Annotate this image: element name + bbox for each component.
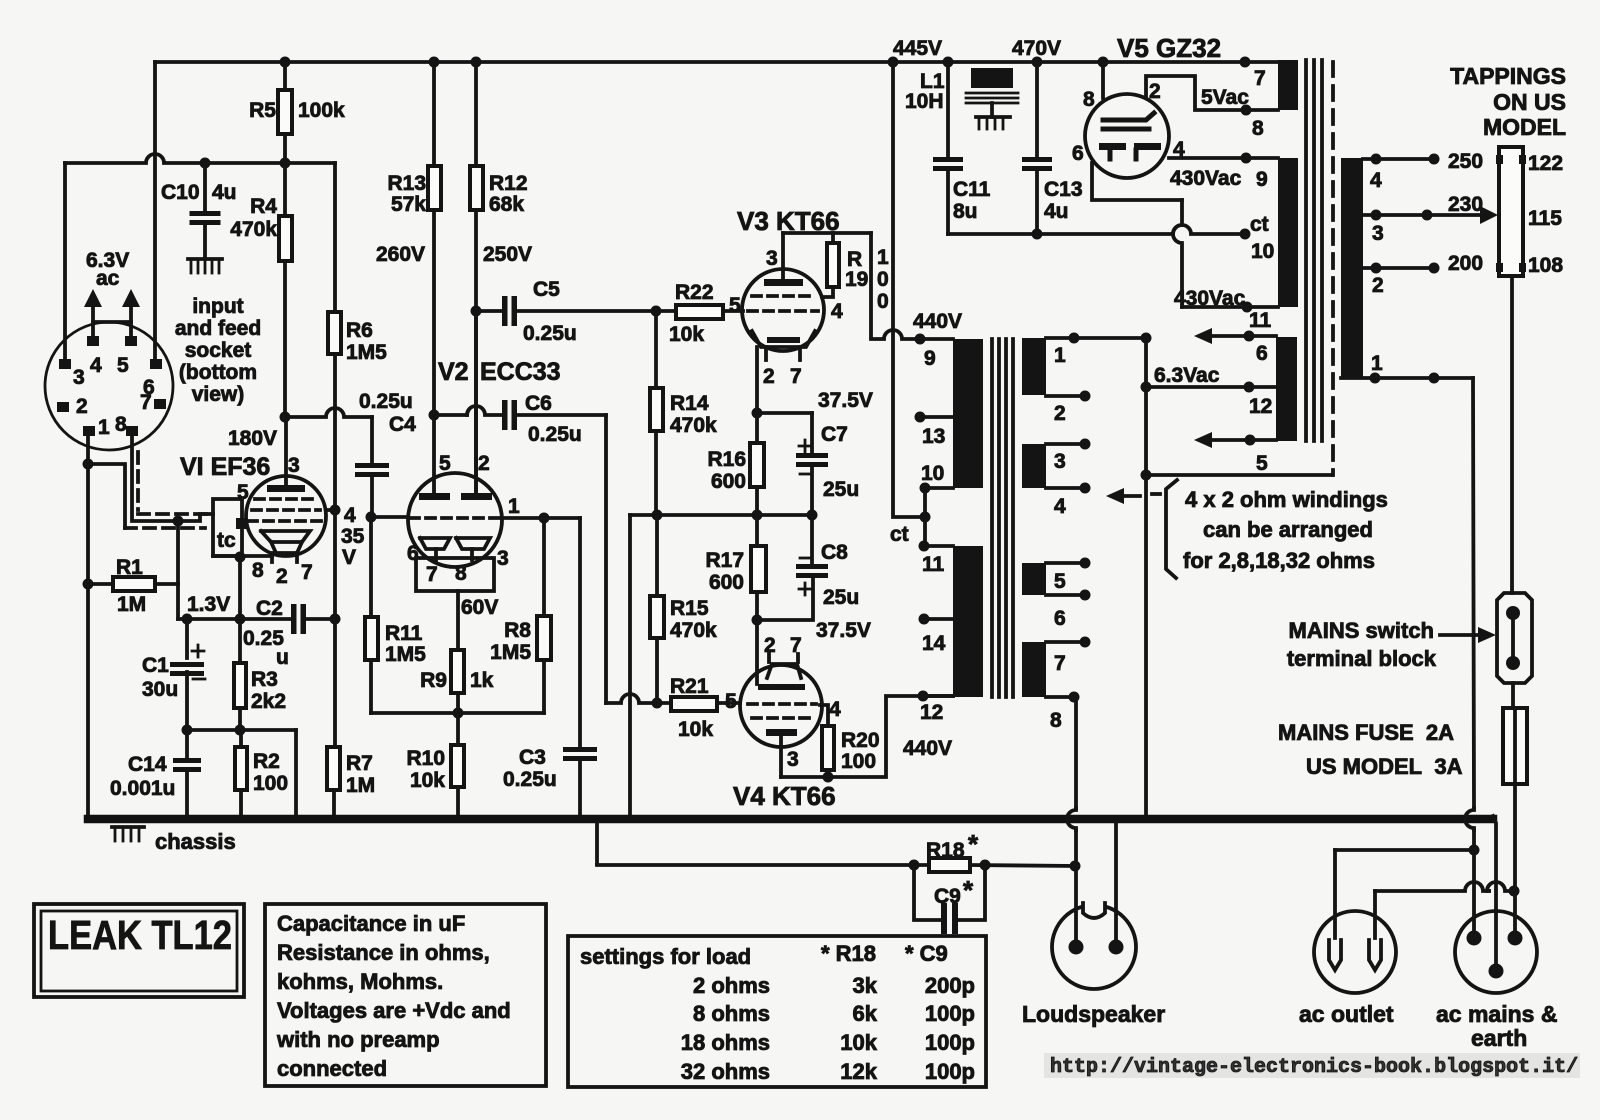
- svg-text:10H: 10H: [905, 90, 944, 113]
- wire: screened lead dashes: [125, 452, 206, 528]
- svg-text:R8: R8: [504, 619, 531, 642]
- wire: loudspeaker right pin to bus: [1114, 822, 1118, 941]
- svg-text:VI EF36: VI EF36: [180, 453, 270, 481]
- svg-text:chassis: chassis: [155, 829, 236, 854]
- label 445V: [893, 37, 942, 60]
- svg-text:3: 3: [1054, 450, 1066, 473]
- svg-text:LEAK TL12: LEAK TL12: [48, 912, 232, 958]
- label R21 10k: [670, 675, 713, 741]
- svg-text:200p: 200p: [925, 973, 975, 998]
- wire: 470V to ct of HV winding: [948, 225, 1245, 234]
- label 5Vac: [1201, 86, 1249, 109]
- node: y730 dots: [182, 725, 246, 736]
- wire: V4 screen lead: [820, 705, 828, 726]
- svg-text:4: 4: [1054, 495, 1066, 518]
- svg-text:C5: C5: [533, 278, 560, 301]
- resistor R11: [365, 517, 378, 713]
- label 60V: [461, 596, 498, 619]
- svg-text:V: V: [342, 546, 356, 569]
- label sec 8: [1050, 709, 1062, 732]
- svg-text:115: 115: [1528, 207, 1562, 230]
- node: NFB to speaker dot: [1070, 861, 1081, 872]
- svg-text:0.25u: 0.25u: [523, 322, 577, 345]
- resistor R1: [88, 577, 178, 591]
- svg-text:7: 7: [140, 391, 152, 414]
- settings table: [821, 941, 975, 1084]
- label R16 600: [707, 448, 746, 493]
- label can be arranged: [1203, 517, 1373, 542]
- svg-text:MODEL: MODEL: [1483, 114, 1566, 140]
- wire: 6.3Vac tap12: [1146, 382, 1276, 393]
- label R12 68k: [489, 172, 528, 216]
- svg-text:9: 9: [1256, 168, 1268, 191]
- capacitor C9 loop: [914, 865, 985, 934]
- wire: ct stub: [923, 488, 927, 546]
- svg-text:1: 1: [1371, 352, 1383, 375]
- label R9 1k: [420, 669, 494, 692]
- svg-text:MAINS FUSE 2A: MAINS FUSE 2A: [1278, 720, 1454, 745]
- svg-text:connected: connected: [277, 1056, 387, 1081]
- wire: live link second hop: [1487, 882, 1514, 891]
- svg-text:430Vac: 430Vac: [1170, 167, 1242, 190]
- svg-text:for 2,8,18,32 ohms: for 2,8,18,32 ohms: [1183, 548, 1375, 573]
- label C14 0.001u: [110, 753, 175, 800]
- tc box: [213, 499, 247, 556]
- svg-text:* C9: * C9: [905, 941, 948, 966]
- wire: B+ 445V top rail: [155, 60, 1283, 64]
- notes box: [265, 904, 546, 1086]
- label 6.3Vac: [1154, 364, 1220, 387]
- svg-text:470k: 470k: [670, 619, 717, 642]
- wire: heater return x=1146: [1144, 338, 1148, 818]
- node: PT tap9 dot: [1241, 153, 1252, 164]
- svg-text:3: 3: [497, 547, 509, 570]
- wire: R5 to R4: [283, 134, 287, 216]
- label 37.5V upper: [818, 389, 873, 412]
- tube V4: cathode stubs: [769, 654, 798, 662]
- label V1 pin3: [288, 454, 300, 477]
- resistor R3: [234, 619, 246, 730]
- svg-text:4 x 2 ohm windings: 4 x 2 ohm windings: [1185, 487, 1388, 512]
- wire: plate line down to tap 9 with hop: [871, 233, 920, 339]
- label C6 0.25u: [525, 392, 582, 446]
- resistor R21 (horizontal): [657, 697, 740, 711]
- svg-text:100: 100: [253, 772, 288, 795]
- wire: mains primary drop: [1465, 378, 1474, 938]
- label R19 100 vertical: [877, 246, 889, 313]
- svg-text:108: 108: [1528, 254, 1563, 277]
- label 0.25u C4: [359, 390, 416, 436]
- wire: tc down to 1.3V node: [238, 557, 242, 619]
- node: R1 left dot: [83, 579, 94, 590]
- svg-text:C10: C10: [161, 181, 200, 204]
- resistor R15: [650, 515, 664, 703]
- svg-text:earth: earth: [1471, 1025, 1527, 1051]
- tube V5: filament: [1099, 143, 1161, 159]
- capacitor C1 electrolytic: [170, 619, 205, 730]
- wire: grid return drop: [176, 521, 180, 619]
- svg-text:10: 10: [1251, 240, 1274, 263]
- svg-text:13: 13: [922, 425, 945, 448]
- wire: NFB branch from bus: [595, 822, 599, 864]
- resistor R12: [470, 62, 483, 311]
- label ct: [890, 523, 909, 546]
- svg-text:1: 1: [508, 495, 520, 518]
- label V3 pins 2 7: [763, 365, 802, 388]
- wire: left heater drop to socket pin 3: [63, 163, 67, 360]
- svg-text:122: 122: [1528, 152, 1563, 175]
- ac outlet: prongs: [1329, 940, 1381, 970]
- svg-text:100p: 100p: [925, 1030, 975, 1055]
- label V1 pin5: [237, 481, 249, 504]
- svg-text:470V: 470V: [1012, 37, 1061, 60]
- svg-text:260V: 260V: [376, 243, 425, 266]
- label C8 25u: [821, 541, 859, 609]
- svg-text:5Vac: 5Vac: [1201, 86, 1249, 109]
- label MAINS FUSE 2A: [1278, 720, 1454, 745]
- capacitor C7 electrolytic: [796, 413, 828, 515]
- label R17 600: [705, 549, 744, 594]
- tube V1 EF36: envelope: [246, 476, 326, 556]
- svg-text:*: *: [963, 875, 974, 905]
- label ac outlet: [1299, 1001, 1394, 1027]
- label V3 grid pin 5: [729, 294, 741, 317]
- wire: tap12: [918, 691, 954, 702]
- svg-text:ac outlet: ac outlet: [1299, 1001, 1394, 1027]
- label PT tap1: [1371, 352, 1383, 375]
- svg-text:terminal block: terminal block: [1287, 646, 1437, 671]
- power transformer: core: [1306, 60, 1322, 441]
- svg-text:C7: C7: [821, 423, 848, 446]
- loudspeaker: pins: [1069, 940, 1124, 955]
- svg-text:(bottom: (bottom: [179, 361, 257, 384]
- svg-text:3k: 3k: [853, 973, 878, 998]
- settings box: [568, 936, 986, 1087]
- fuse: [1503, 708, 1527, 784]
- svg-text:R7: R7: [346, 752, 373, 775]
- capacitor C13: [1022, 62, 1052, 234]
- tube V2: cathode stubs: [436, 549, 472, 560]
- label R14 470k: [670, 392, 717, 437]
- label V4 pin4: [829, 698, 841, 721]
- capacitor C3: [563, 518, 597, 818]
- svg-text:440V: 440V: [913, 310, 962, 333]
- label R20 100: [841, 729, 880, 773]
- svg-text:R5: R5: [249, 99, 276, 122]
- svg-text:C13: C13: [1044, 178, 1083, 201]
- power transformer: 6.3V winding bar: [1276, 337, 1297, 441]
- svg-text:10: 10: [921, 462, 944, 485]
- wire: heater bus y=163 hopping over x=155: [65, 154, 205, 163]
- wire: cathode bottom node y=730: [187, 728, 296, 732]
- wire: arrow crossbar: [93, 320, 131, 324]
- label V4 KT66: [733, 781, 836, 811]
- label V3 pin4: [831, 300, 843, 323]
- svg-text:R15: R15: [670, 597, 709, 620]
- svg-text:input: input: [192, 295, 243, 318]
- label 250: [1448, 150, 1483, 173]
- capacitor C11: [933, 62, 963, 234]
- tube V4: grid dashes: [748, 704, 816, 718]
- svg-text:200: 200: [1448, 252, 1483, 275]
- label C1 30u: [142, 654, 178, 701]
- svg-text:V2: V2: [438, 358, 469, 386]
- svg-text:u: u: [276, 646, 289, 669]
- label sec 1: [1054, 344, 1066, 367]
- output transformer: secondary bar 7-8: [1022, 642, 1046, 697]
- wire: drop x=296 to chassis: [294, 730, 298, 818]
- svg-text:9: 9: [924, 347, 936, 370]
- wire: sec tap3: [1046, 439, 1091, 450]
- wire: 1.3V node: [178, 617, 291, 621]
- label chassis: [155, 829, 236, 854]
- wire: heater bus y=163 right part: [205, 161, 335, 165]
- label V2 pins 7 8: [426, 562, 467, 586]
- svg-text:11: 11: [922, 553, 945, 576]
- label sec 2: [1054, 402, 1066, 425]
- wire: tap14: [919, 614, 954, 625]
- svg-text:C11: C11: [953, 178, 991, 201]
- svg-text:12k: 12k: [840, 1059, 877, 1084]
- resistor R7: [327, 747, 340, 818]
- node: ct dots: [919, 483, 931, 552]
- svg-text:V4 KT66: V4 KT66: [733, 781, 836, 811]
- svg-text:35: 35: [341, 525, 365, 548]
- chassis bus: [88, 815, 1493, 824]
- label C13 4u: [1044, 178, 1083, 223]
- label V3 pin3: [766, 247, 778, 270]
- wire: bias node y=713: [371, 711, 544, 715]
- label 200: [1448, 252, 1483, 275]
- tappings box: [1496, 147, 1526, 276]
- svg-text:8: 8: [455, 562, 467, 585]
- power transformer: 5V winding bar: [1278, 60, 1298, 110]
- svg-text:R6: R6: [346, 319, 373, 342]
- svg-text:3: 3: [288, 454, 300, 477]
- arrow: to switch: [1440, 627, 1496, 643]
- resistor R19: [822, 233, 839, 297]
- wire: 250 tap: [1363, 154, 1440, 165]
- svg-text:1: 1: [1054, 344, 1066, 367]
- svg-text:2: 2: [763, 365, 775, 388]
- svg-text:5: 5: [1256, 452, 1268, 475]
- node: 1.3V dots: [182, 614, 246, 625]
- label 430Vac lower: [1174, 287, 1246, 310]
- svg-text:3: 3: [787, 748, 799, 771]
- wire: socket pin8 to tc box: [132, 436, 213, 521]
- svg-text:12: 12: [920, 701, 943, 724]
- ground: chassis symbol: [112, 827, 144, 841]
- label 108: [1528, 254, 1563, 277]
- input socket pins: [57, 336, 166, 436]
- svg-text:440V: 440V: [903, 737, 952, 760]
- label R5: [249, 99, 345, 122]
- svg-text:US MODEL 3A: US MODEL 3A: [1306, 754, 1463, 779]
- label V5 pin6: [1072, 142, 1084, 165]
- svg-text:socket: socket: [185, 339, 252, 362]
- brace: [1152, 480, 1177, 578]
- svg-text:8 ohms: 8 ohms: [693, 1001, 770, 1026]
- label PT tap7: [1254, 67, 1266, 90]
- svg-text:5: 5: [729, 294, 741, 317]
- node: fuse line dot: [1509, 886, 1520, 897]
- label 37.5V lower: [816, 619, 871, 642]
- wire: V2 right grid to R8/C3: [504, 513, 580, 524]
- label tap 12: [920, 701, 943, 724]
- label V3 KT66: [737, 206, 840, 236]
- svg-text:C14: C14: [128, 753, 167, 776]
- label sec 7: [1054, 652, 1066, 675]
- svg-text:Loudspeaker: Loudspeaker: [1022, 1001, 1165, 1027]
- svg-text:32 ohms: 32 ohms: [681, 1059, 770, 1084]
- wire: ground drop x=630: [628, 515, 632, 818]
- svg-text:4: 4: [1370, 169, 1382, 192]
- svg-text:C6: C6: [525, 392, 552, 415]
- tube V4: plate: [766, 729, 797, 777]
- output transformer: secondary bar 1-2: [1022, 338, 1046, 395]
- svg-text:57k: 57k: [391, 193, 426, 216]
- wire: 230 tap with arrow: [1363, 206, 1498, 224]
- svg-text:R18: R18: [926, 839, 965, 862]
- wire: left rail down to chassis: [86, 464, 90, 819]
- label PT tap11: [1249, 309, 1272, 332]
- resistor R20: [822, 726, 834, 777]
- label C5 0.25u: [523, 278, 577, 345]
- label 115: [1528, 207, 1562, 230]
- label 440V lower: [903, 737, 952, 760]
- svg-text:4: 4: [344, 504, 356, 527]
- wire: V3 plate top lead: [783, 231, 871, 235]
- svg-text:Voltages are +Vdc and: Voltages are +Vdc and: [277, 998, 511, 1023]
- label US MODEL 3A: [1306, 754, 1463, 779]
- label Loudspeaker: [1022, 1001, 1165, 1027]
- svg-text:R13: R13: [387, 172, 426, 195]
- svg-text:kohms, Mohms.: kohms, Mohms.: [277, 969, 443, 994]
- svg-text:25u: 25u: [823, 478, 859, 501]
- wire: ac outlet right prong lead: [1373, 891, 1377, 938]
- wire: sec tap4: [1046, 483, 1091, 494]
- wire: V1 pin4 screen lead: [326, 505, 341, 516]
- svg-text:V5 GZ32: V5 GZ32: [1117, 33, 1221, 63]
- wire: sec tap6: [1046, 590, 1091, 601]
- node: C6 left dot: [429, 410, 440, 421]
- svg-text:2: 2: [1372, 274, 1384, 297]
- wire: sec tap2: [1046, 391, 1091, 402]
- label V2 pin3: [497, 547, 509, 570]
- wire: C6 to R21 long drop: [606, 415, 657, 703]
- svg-text:7: 7: [426, 563, 438, 586]
- wire: switch to fuse: [1511, 683, 1515, 708]
- node: C5 tap dot: [471, 306, 482, 317]
- node: 470V wire dots: [1032, 229, 1251, 240]
- svg-text:2: 2: [76, 395, 88, 418]
- node: NFB dots: [909, 860, 991, 871]
- wire: V2 cathode stem: [456, 591, 460, 650]
- tube V3: plate: [764, 233, 803, 286]
- input socket: circle: [45, 322, 173, 450]
- resistor R22 (horizontal): [656, 305, 743, 319]
- node: tap9 dot: [915, 334, 926, 345]
- resistor R4: [279, 216, 292, 261]
- label V4 pin3: [787, 748, 799, 771]
- label R1 1M: [116, 556, 146, 616]
- node: pin1 dot: [83, 459, 94, 470]
- svg-text:R16: R16: [707, 448, 746, 471]
- wire: y=475 line to core: [1146, 473, 1332, 477]
- svg-text:5: 5: [117, 354, 129, 377]
- label C10 4u: [161, 181, 237, 204]
- svg-text:R3: R3: [251, 668, 278, 691]
- label R10 10k: [406, 747, 445, 792]
- label R7 1M: [346, 752, 375, 797]
- tube V4: envelope: [740, 665, 822, 747]
- wire: socket pin1 ground lead: [88, 436, 125, 528]
- capacitor C2: [291, 604, 335, 634]
- wire: tap13: [915, 412, 954, 423]
- label tap 9: [924, 347, 936, 370]
- svg-text:2 ohms: 2 ohms: [693, 973, 770, 998]
- svg-text:10k: 10k: [669, 323, 704, 346]
- label R15 470k: [670, 597, 717, 642]
- svg-text:1: 1: [98, 416, 110, 439]
- label V4 pins 2 7: [764, 634, 802, 657]
- svg-text:18 ohms: 18 ohms: [681, 1030, 770, 1055]
- svg-text:7: 7: [1254, 67, 1266, 90]
- svg-text:8: 8: [115, 413, 127, 436]
- label tap 11: [922, 553, 945, 576]
- wire: sec tap8: [1046, 692, 1080, 703]
- resistor R17: [751, 515, 766, 620]
- svg-text:1: 1: [877, 246, 889, 269]
- label sec 4: [1054, 495, 1066, 518]
- label R3 2k2: [251, 668, 286, 713]
- label C11 8u: [953, 178, 991, 223]
- node: PT tap11 dot: [1242, 302, 1253, 313]
- label PT tap2: [1372, 274, 1384, 297]
- svg-text:12: 12: [1249, 395, 1272, 418]
- svg-text:3: 3: [1372, 222, 1384, 245]
- svg-text:0: 0: [877, 268, 889, 291]
- svg-text:R11: R11: [385, 622, 423, 645]
- svg-text:100p: 100p: [925, 1001, 975, 1026]
- label TAPPINGS ON US MODEL: [1450, 63, 1566, 140]
- svg-text:ON US: ON US: [1493, 89, 1566, 115]
- svg-text:7: 7: [301, 561, 313, 584]
- label V2 pin2: [478, 452, 490, 475]
- label L1 10H: [905, 70, 945, 113]
- svg-text:0.001u: 0.001u: [110, 777, 175, 800]
- svg-text:2: 2: [478, 452, 490, 475]
- svg-text:R21: R21: [670, 675, 709, 698]
- label 4x2 ohm windings: [1185, 487, 1388, 512]
- resistor R10: [451, 713, 464, 818]
- wire: to ac outlet left pin: [1335, 848, 1474, 852]
- tube V3: grid dashes: [748, 296, 818, 311]
- wire: R4 to V1 plate node: [283, 261, 287, 417]
- label PT tap5: [1256, 452, 1268, 475]
- wire: C4 to V2 grid: [371, 515, 408, 519]
- label R6 1M5: [346, 319, 387, 364]
- svg-text:1M: 1M: [117, 593, 146, 616]
- label PT tap8: [1252, 117, 1264, 140]
- node: heater bus dots: [200, 158, 291, 169]
- svg-text:3: 3: [766, 247, 778, 270]
- wire: PT tap5 with arrow: [1194, 432, 1276, 448]
- svg-text:100: 100: [841, 750, 876, 773]
- node: outlet feed dot: [1469, 845, 1480, 856]
- resistor R9: [451, 650, 464, 713]
- svg-text:8u: 8u: [953, 200, 978, 223]
